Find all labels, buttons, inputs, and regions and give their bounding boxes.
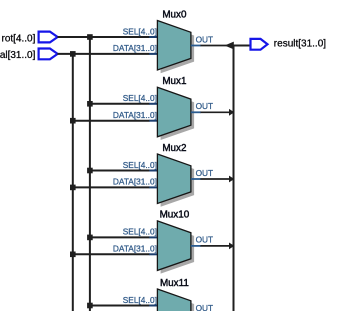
svg-text:SEL[4..0]: SEL[4..0] xyxy=(123,26,157,36)
wire stub SEL port Mux1 xyxy=(149,103,157,105)
wire SEL bus to Mux10 xyxy=(90,236,150,238)
mux Mux11 shadow xyxy=(161,292,195,311)
wire stub DATA port Mux2 xyxy=(149,186,157,188)
svg-text:Mux10: Mux10 xyxy=(160,210,190,221)
wire stub SEL port Mux0 xyxy=(149,36,157,38)
svg-text:SEL[4..0]: SEL[4..0] xyxy=(123,93,157,103)
arrowhead OUT Mux2 into bus (points right) xyxy=(229,176,234,183)
wire DATA bus to Mux10 xyxy=(73,253,150,255)
wire vertical bus rot/SEL xyxy=(89,37,91,311)
wire vertical bus OUT/result xyxy=(233,46,235,311)
wire stub SEL port Mux11 xyxy=(149,305,157,307)
mux Mux10 xyxy=(157,221,191,271)
svg-text:DATA[31..0]: DATA[31..0] xyxy=(113,110,157,120)
input pin val[31..0] xyxy=(0,49,58,62)
wire stub SEL port Mux10 xyxy=(149,236,157,238)
wire OUT Mux2 to bus xyxy=(201,178,234,180)
svg-text:al[31..0]: al[31..0] xyxy=(0,50,36,61)
wire OUT Mux10 to bus xyxy=(201,245,234,247)
junction SEL Mux10 xyxy=(87,235,93,241)
wire bus to result pin xyxy=(234,45,251,47)
mux Mux2 shadow xyxy=(161,157,195,207)
svg-text:Mux11: Mux11 xyxy=(160,278,189,289)
junction val bus tap xyxy=(70,51,76,57)
wire vertical bus val/DATA xyxy=(72,54,74,311)
wire val pin to Mux0 DATA xyxy=(57,53,149,55)
svg-text:DATA[31..0]: DATA[31..0] xyxy=(113,177,157,187)
wire stub OUT port Mux1 xyxy=(191,111,201,113)
mux Mux11 xyxy=(157,289,191,311)
mux Mux0 shadow xyxy=(161,24,195,73)
svg-text:rot[4..0]: rot[4..0] xyxy=(1,33,35,44)
mux Mux2 xyxy=(157,154,191,204)
wire stub OUT port Mux10 xyxy=(191,245,201,247)
svg-text:DATA[31..0]: DATA[31..0] xyxy=(113,43,157,53)
arrowhead result junction (points left) xyxy=(225,42,234,50)
wire stub OUT port Mux2 xyxy=(191,178,201,180)
wire SEL bus to Mux1 xyxy=(90,103,150,105)
svg-text:SEL[4..0]: SEL[4..0] xyxy=(123,295,157,305)
mux Mux1 shadow xyxy=(161,91,195,141)
wire OUT Mux1 to bus xyxy=(201,111,234,113)
svg-text:OUT: OUT xyxy=(196,168,214,178)
svg-text:SEL[4..0]: SEL[4..0] xyxy=(123,160,157,170)
wire SEL bus to Mux11 xyxy=(90,305,150,307)
arrowhead OUT Mux10 into bus (points right) xyxy=(229,243,234,250)
svg-text:OUT: OUT xyxy=(196,235,214,245)
junction rot bus tap xyxy=(87,34,93,40)
arrowhead OUT Mux1 into bus (points right) xyxy=(229,109,234,116)
mux Mux1 xyxy=(157,87,191,137)
mux Mux0 xyxy=(157,21,191,71)
input pin rot[4..0] xyxy=(1,32,57,45)
svg-text:OUT: OUT xyxy=(196,34,214,44)
output pin result[31..0] xyxy=(251,38,327,49)
svg-text:SEL[4..0]: SEL[4..0] xyxy=(123,227,157,237)
wire stub DATA port Mux1 xyxy=(149,120,157,122)
svg-text:OUT: OUT xyxy=(196,101,214,111)
junction SEL Mux11 xyxy=(87,303,93,309)
junction DATA Mux2 xyxy=(70,185,76,191)
svg-text:result[31..0]: result[31..0] xyxy=(274,38,326,49)
wire DATA bus to Mux2 xyxy=(73,186,150,188)
svg-text:DATA[31..0]: DATA[31..0] xyxy=(113,244,157,254)
svg-text:Mux1: Mux1 xyxy=(162,76,187,87)
svg-text:Mux2: Mux2 xyxy=(162,143,186,154)
wire SEL bus to Mux2 xyxy=(90,170,150,172)
junction DATA Mux10 xyxy=(70,252,76,258)
wire stub SEL port Mux2 xyxy=(149,170,157,172)
junction DATA Mux1 xyxy=(70,118,76,124)
wire stub DATA port Mux0 xyxy=(149,53,157,55)
mux Mux10 shadow xyxy=(161,224,195,274)
junction SEL Mux1 xyxy=(87,101,93,107)
svg-text:Mux0: Mux0 xyxy=(162,9,187,20)
svg-text:OUT: OUT xyxy=(196,303,214,311)
junction SEL Mux2 xyxy=(87,168,93,174)
wire OUT Mux0 to bus xyxy=(201,45,234,47)
wire rot pin to Mux0 SEL xyxy=(57,36,149,38)
wire stub OUT port Mux0 xyxy=(191,45,201,47)
wire stub DATA port Mux10 xyxy=(149,253,157,255)
wire DATA bus to Mux1 xyxy=(73,120,150,122)
